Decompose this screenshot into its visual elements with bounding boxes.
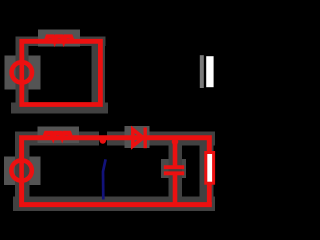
capacitor C2 top plate xyxy=(164,165,184,169)
wire: capacitor branch lower xyxy=(173,175,178,205)
diode D1 cathode bar xyxy=(143,128,146,149)
diode D1 grey blob xyxy=(125,126,150,148)
resistor R2 (load, white box red border) xyxy=(206,153,214,184)
resistor R1 (inactive, white fill) xyxy=(206,56,213,87)
wire: top rail grey band left xyxy=(15,132,99,146)
wire: resistor to bottom rail xyxy=(207,184,212,205)
inductor L2 bumps xyxy=(44,133,71,138)
source V1 circle xyxy=(12,62,32,82)
wire: bottom rail grey band xyxy=(13,197,215,212)
inductor L1 grey blob xyxy=(38,30,80,47)
wire: source down to bottom rail xyxy=(22,183,212,205)
wire: resistor branch grey band xyxy=(200,138,214,208)
capacitor C2 bottom plate xyxy=(164,171,184,175)
wire: bottom rail grey band xyxy=(11,103,108,114)
wire: left side + top rail to diode xyxy=(22,138,210,158)
switch S2 open lever (blue) xyxy=(103,159,106,199)
capacitor C2 grey blob xyxy=(161,159,186,178)
wire: switch branch grey band xyxy=(92,37,106,112)
wire: left wire grey band xyxy=(15,135,30,211)
wire: top loop (top rail, switch S1 closed, bottom rail) xyxy=(22,41,101,104)
diode D1 triangle xyxy=(133,129,143,146)
source V2 grey blob xyxy=(4,157,41,186)
wire: vertical through source xyxy=(19,153,24,188)
inductor L2 grey blob xyxy=(38,127,80,144)
inductor L1 bumps xyxy=(46,37,73,42)
wire: top rail grey band xyxy=(16,37,106,47)
wire: capacitor branch upper xyxy=(173,139,178,166)
wire: top rail grey band right xyxy=(107,132,215,146)
node: junction dot at switch xyxy=(100,137,107,144)
wire: left wire grey band xyxy=(16,39,29,112)
source V2 circle xyxy=(11,160,31,180)
wire: capacitor branch grey band xyxy=(169,145,183,211)
wire: vertical through source xyxy=(19,55,24,90)
node A highlight: source Vi grey blob xyxy=(5,56,41,90)
node: junction dot at capacitor xyxy=(172,139,179,146)
capacitor C1 (inactive, grey bar) xyxy=(200,55,204,88)
